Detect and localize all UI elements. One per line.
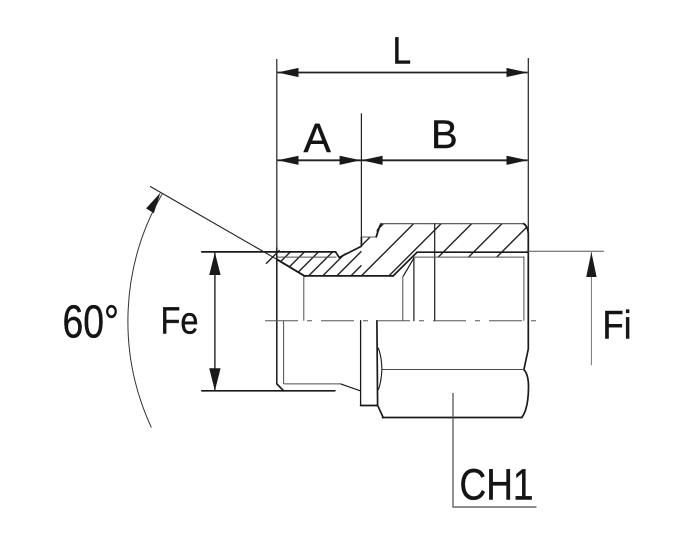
arrowhead Fe top [209,252,220,275]
chamfer vertical male [283,321,285,384]
hex chamfer top-left [376,224,381,237]
Fi dim line [590,252,592,365]
svg-text:CH1: CH1 [460,461,534,510]
60 deg leader/cone line [150,186,277,259]
cone end vertical [303,276,305,321]
shoulder face [360,321,362,406]
extension lines [276,59,278,249]
A/B dim line [278,159,528,161]
centerline [265,320,542,322]
arrowhead B left [362,156,383,165]
arrowhead Fi up [586,252,596,277]
arrowhead 60deg arc [146,193,160,214]
hex left silhouette [377,321,383,418]
taper bore->thread [393,252,417,276]
male end face [276,248,278,384]
arrowhead L left [278,68,299,77]
thin grey internals upper [277,256,524,320]
steep inner diagonal [403,258,414,276]
hatching group right (body), wider spacing [361,218,536,282]
hex chamfer bulge bottom-right [522,370,529,418]
svg-text:Fe: Fe [161,301,199,343]
chamfer diag [277,384,284,391]
female thread minor line [417,251,528,253]
cone seat thick part [277,259,305,276]
arrowhead B right [507,156,528,165]
Fi ext line [526,250,604,252]
inner vertical at 434.7 [434,224,436,321]
arrowhead A right [340,156,361,165]
female chamfer vertical [523,256,525,320]
male OD bottom + Fe ext [202,390,335,392]
bore line [304,275,393,277]
Fe dim line [214,253,216,391]
CH1 leader [453,393,537,507]
hex chamfer top-right [524,224,529,234]
male thread root bottom [284,383,341,385]
shoulder bottom [361,405,377,407]
hatching group left (male stud), denser [260,240,361,282]
shoulder OD top [361,236,376,238]
male thread root top [277,256,337,258]
hex bottom [383,417,522,419]
thread runout diagonal [341,384,361,391]
arrowhead L right [507,68,528,77]
female thread root [414,256,524,258]
svg-text:60°: 60° [63,296,120,348]
svg-text:L: L [393,31,412,73]
hex top [381,223,524,225]
male OD line top + Fe top extension [202,251,336,253]
V notch undercut [336,238,362,258]
inner vertical at 413.9 [413,258,415,321]
svg-text:Fi: Fi [603,304,632,348]
arrowhead Fe bottom [209,368,220,391]
arrowhead A left [278,156,299,165]
hex chamfer arc bottom-left [378,348,382,390]
L dim line [278,72,528,74]
arrowheads [146,68,596,391]
hex right silhouette + face [524,233,528,369]
bore end vertical [402,276,404,321]
svg-text:B: B [431,113,458,157]
60 deg arc [128,194,162,428]
corner hatch stub at male face OD corner [266,250,280,264]
hex edge line [382,369,524,371]
svg-text:A: A [304,115,332,161]
